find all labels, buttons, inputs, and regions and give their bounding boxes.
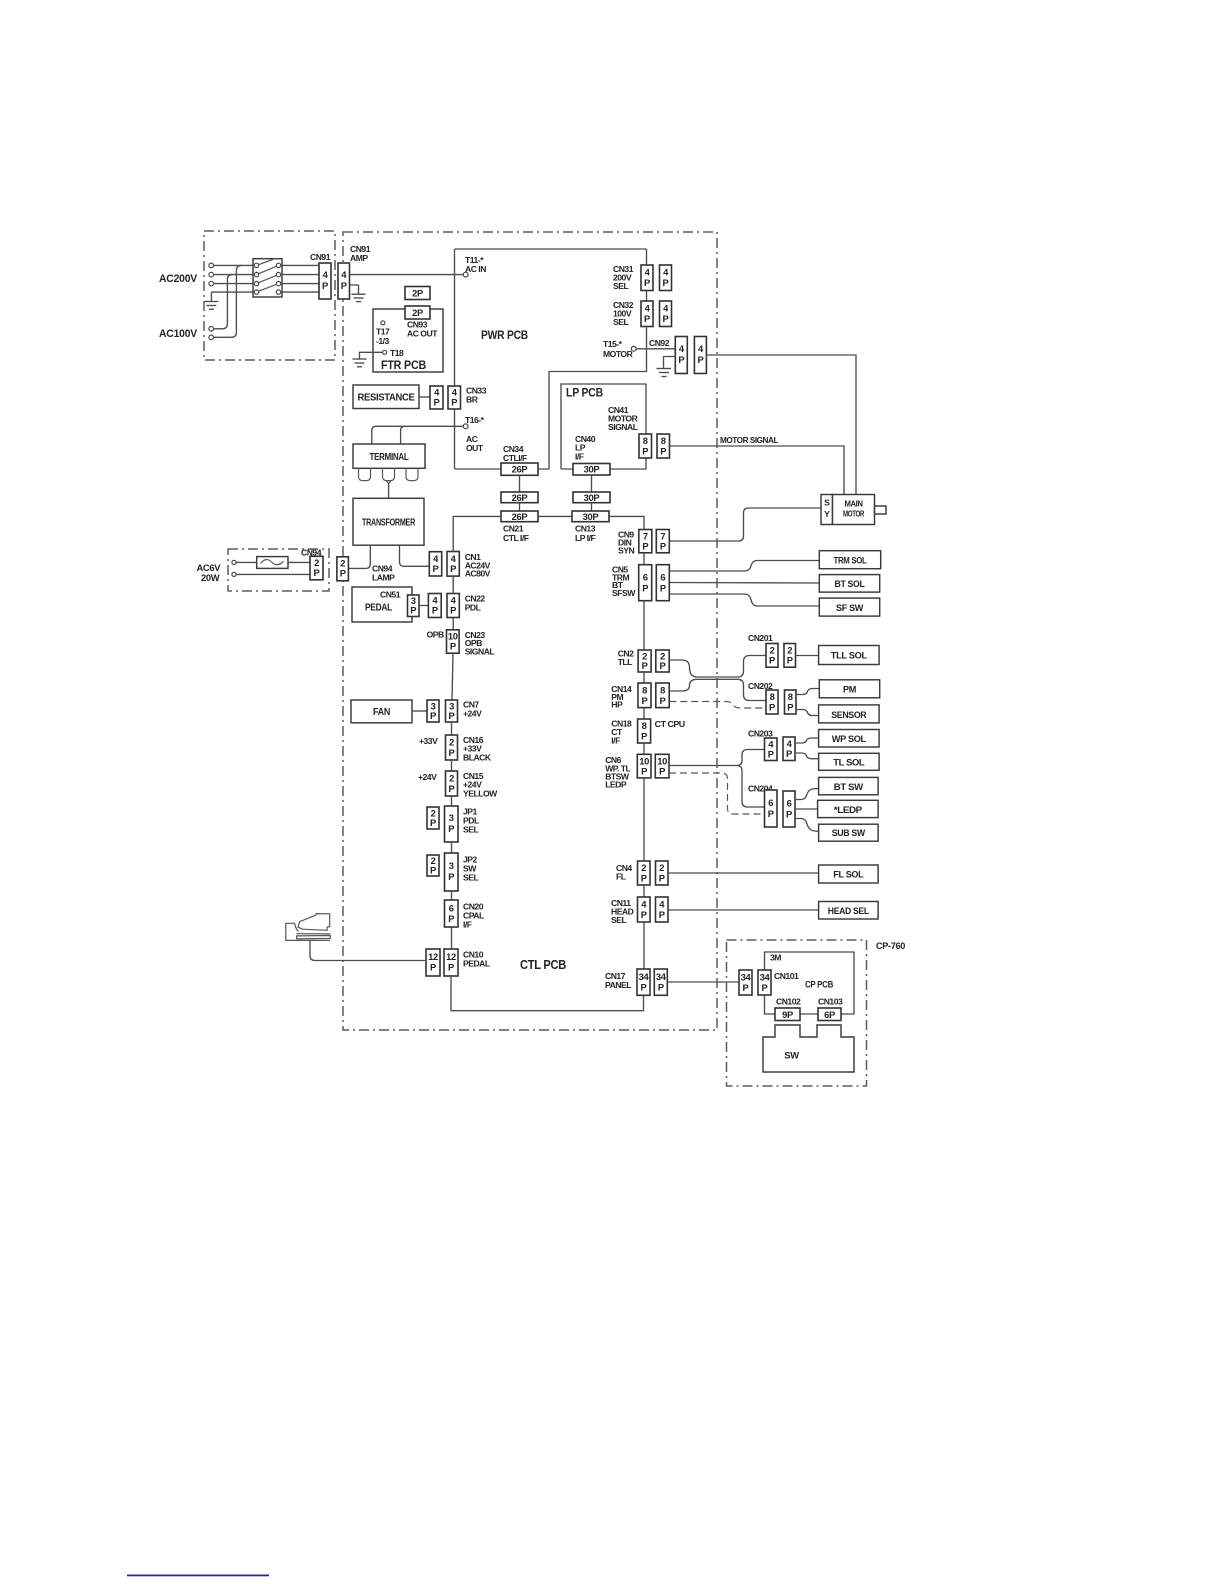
- svg-text:CN21: CN21: [503, 524, 524, 534]
- svg-text:P: P: [762, 982, 768, 993]
- svg-text:FL SOL: FL SOL: [833, 869, 864, 880]
- wire CN204 to BT SW: [795, 789, 819, 800]
- svg-text:HP: HP: [611, 700, 623, 710]
- svg-text:P: P: [697, 354, 703, 365]
- svg-text:RESISTANCE: RESISTANCE: [358, 393, 415, 404]
- connector CN31 4P mate: [660, 265, 672, 291]
- device TRANSFORMER: [353, 498, 424, 545]
- svg-text:+24V: +24V: [463, 709, 482, 719]
- connector CN101 34P: [739, 970, 752, 995]
- connector CN32 4P: [641, 301, 653, 327]
- svg-text:FL: FL: [616, 872, 626, 882]
- wire line3: [214, 283, 255, 285]
- device TL SOL: [819, 753, 880, 770]
- wire lamp terminal 1: [236, 561, 257, 563]
- wire chain CN23 to CN7: [452, 653, 453, 700]
- wire chain CN6 to CN4: [643, 778, 645, 861]
- foot pedal icon: [286, 914, 331, 941]
- wire fan to 3P: [412, 710, 427, 712]
- wire CN201 to TLL SOL: [796, 655, 819, 657]
- svg-text:P: P: [642, 695, 648, 706]
- connector CN204 6P mate: [783, 791, 795, 827]
- wire transformer to CN94: [349, 545, 371, 568]
- svg-text:8: 8: [642, 685, 647, 696]
- svg-text:P: P: [659, 766, 665, 777]
- connector CN11 4P mate: [656, 897, 669, 922]
- svg-text:AMP: AMP: [350, 253, 368, 263]
- connector CN6 10P: [637, 754, 651, 778]
- svg-text:Y: Y: [824, 509, 830, 519]
- svg-text:P: P: [642, 446, 648, 457]
- device HEAD SEL: [819, 902, 879, 920]
- svg-text:P: P: [786, 809, 792, 820]
- svg-text:P: P: [660, 695, 666, 706]
- svg-text:SIGNAL: SIGNAL: [608, 422, 638, 432]
- svg-text:P: P: [658, 982, 664, 993]
- svg-text:P: P: [448, 913, 454, 924]
- ground at CN92: [657, 357, 676, 377]
- main motor SY box: [821, 495, 833, 525]
- switch blade 1: [257, 259, 276, 266]
- connector CN9 7P: [639, 530, 652, 553]
- svg-text:P: P: [434, 397, 440, 408]
- wire CN21 to left chain: [453, 516, 501, 551]
- wire chain CN10 to CN17 panel: [451, 976, 644, 1011]
- svg-text:P: P: [660, 660, 666, 671]
- node T15: [631, 346, 636, 351]
- switch blade 3: [257, 275, 279, 284]
- svg-text:AC OUT: AC OUT: [407, 329, 438, 339]
- connector CN21 26P: [501, 511, 538, 522]
- wire T15 to CN92: [636, 348, 675, 350]
- wire chain JP2 to CN20: [451, 891, 453, 900]
- lamp symbol: [257, 557, 288, 569]
- svg-text:3: 3: [449, 860, 454, 871]
- device SF SW: [819, 598, 879, 616]
- svg-text:T17: T17: [376, 327, 390, 337]
- svg-text:T16-*: T16-*: [465, 415, 485, 425]
- wire line1 AC200V: [214, 264, 255, 266]
- svg-text:FAN: FAN: [373, 707, 390, 718]
- connector CN41 8P: [639, 434, 652, 458]
- svg-text:CTL I/F: CTL I/F: [503, 533, 529, 543]
- connector CN10 12P mate: [444, 949, 458, 976]
- svg-text:8: 8: [642, 720, 647, 731]
- svg-text:TLL: TLL: [618, 657, 632, 667]
- svg-text:AC100V: AC100V: [159, 328, 198, 340]
- connector CN31 4P: [641, 265, 653, 291]
- connector CN203 4P: [765, 738, 778, 761]
- connector CN51 3P: [408, 595, 420, 617]
- svg-text:P: P: [430, 817, 436, 828]
- svg-text:8: 8: [788, 691, 793, 702]
- svg-text:SEL: SEL: [613, 317, 628, 327]
- connector CN7 3P mate: [446, 700, 458, 722]
- wire CN6 shield dashed to CN204: [669, 773, 765, 814]
- connector CN13 30P: [572, 511, 609, 522]
- connector CN14 8P: [638, 683, 651, 708]
- svg-text:AC IN: AC IN: [465, 264, 486, 274]
- svg-text:P: P: [341, 280, 347, 291]
- svg-text:P: P: [644, 313, 650, 324]
- svg-text:2: 2: [659, 862, 664, 873]
- device TRM SOL: [819, 551, 880, 569]
- device FAN: [351, 700, 412, 723]
- wire line2: [214, 274, 255, 276]
- svg-text:3: 3: [449, 812, 454, 823]
- node lamp terminals: [232, 560, 236, 576]
- svg-text:20W: 20W: [201, 572, 220, 583]
- svg-text:12: 12: [446, 951, 456, 962]
- wire chain CN15 to JP1: [451, 796, 453, 806]
- svg-text:2: 2: [641, 862, 646, 873]
- connector CN103 6P: [818, 1008, 841, 1021]
- wire chain CN18 to CN6: [643, 743, 645, 754]
- svg-text:P: P: [314, 567, 320, 578]
- CP PCB board outline: [765, 952, 855, 1014]
- footer underline: [127, 1575, 269, 1577]
- svg-text:WP SOL: WP SOL: [832, 733, 867, 744]
- connector CN101 34P mate: [758, 970, 771, 995]
- wire AC100V lower to line1: [214, 265, 242, 337]
- svg-text:6: 6: [768, 797, 773, 808]
- connector CN1 4P: [429, 552, 441, 576]
- svg-text:P: P: [641, 982, 647, 993]
- connector CN7 3P: [427, 700, 439, 722]
- wire terminal to T16: [372, 426, 463, 444]
- connector CN4 2P: [638, 861, 651, 885]
- svg-text:TRANSFORMER: TRANSFORMER: [362, 518, 416, 529]
- wire CN5 to TRM SOL: [669, 561, 819, 572]
- node terminals AC200V: [209, 263, 214, 286]
- svg-text:SFSW: SFSW: [612, 588, 636, 598]
- svg-text:MAIN: MAIN: [845, 499, 863, 509]
- svg-text:I/F: I/F: [575, 452, 584, 462]
- svg-text:BT SW: BT SW: [834, 781, 863, 792]
- device SW panel: [763, 1025, 854, 1072]
- wire 26P stack b: [519, 503, 521, 511]
- device SUB SW: [819, 824, 879, 841]
- wire loop to CN34 26P: [455, 468, 502, 470]
- connector CN10 12P: [426, 949, 440, 976]
- svg-text:MOTOR: MOTOR: [603, 349, 634, 359]
- CP-760 dashed enclosure: [727, 940, 867, 1086]
- connector CN91 4P plug: [319, 263, 331, 299]
- node T17: [381, 321, 385, 325]
- svg-text:S: S: [824, 498, 830, 508]
- connector CN202 8P mate: [785, 690, 797, 714]
- svg-text:PM: PM: [843, 684, 857, 695]
- svg-text:I/F: I/F: [463, 920, 472, 930]
- svg-text:8: 8: [660, 685, 665, 696]
- connector CN4 2P mate: [656, 861, 669, 885]
- device MAIN MOTOR: [833, 495, 875, 525]
- svg-text:P: P: [786, 748, 792, 759]
- connector CN92 4P: [675, 337, 687, 374]
- svg-text:P: P: [451, 397, 457, 408]
- svg-text:P: P: [450, 563, 456, 574]
- wire CN203 to WP SOL: [795, 738, 819, 743]
- connector CN17 34P: [637, 969, 650, 995]
- connector JP1 2P: [427, 807, 439, 829]
- svg-text:CP PCB: CP PCB: [805, 979, 833, 990]
- svg-text:P: P: [644, 277, 650, 288]
- wire lamp to CN94: [288, 561, 310, 563]
- svg-text:P: P: [660, 583, 666, 594]
- switch contact nodes: [254, 263, 280, 294]
- wire CN5 to BT SOL: [669, 582, 819, 585]
- svg-text:2P: 2P: [412, 288, 423, 299]
- device WP SOL: [819, 730, 880, 748]
- svg-text:8: 8: [643, 435, 648, 446]
- wire CN6 to CN203: [669, 750, 765, 766]
- svg-text:MOTOR: MOTOR: [843, 509, 865, 519]
- svg-text:6P: 6P: [824, 1009, 835, 1020]
- svg-text:34: 34: [656, 971, 667, 982]
- connector CN5 6P mate: [656, 565, 669, 601]
- AC6V lamp dashed enclosure: [228, 549, 329, 591]
- svg-text:26P: 26P: [512, 492, 528, 503]
- wire CN14 to bundle: [669, 679, 737, 691]
- svg-text:P: P: [448, 823, 454, 834]
- svg-text:SEL: SEL: [463, 825, 478, 835]
- svg-text:CTL PCB: CTL PCB: [520, 957, 566, 972]
- svg-text:6: 6: [787, 798, 792, 809]
- connector CN23 10P: [447, 630, 460, 653]
- svg-text:SEL: SEL: [463, 873, 478, 883]
- svg-text:6: 6: [643, 572, 648, 583]
- terminal comb: [359, 468, 419, 483]
- wire 26P stack a: [519, 475, 521, 492]
- svg-text:SENSOR: SENSOR: [831, 709, 867, 720]
- svg-text:P: P: [641, 909, 647, 920]
- connector CN17 34P mate: [654, 969, 667, 995]
- wire chain CN22 to CN23: [452, 618, 454, 630]
- svg-text:P: P: [768, 808, 774, 819]
- connector CN201 2P mate: [784, 644, 796, 668]
- wire 30P stack a: [591, 475, 593, 492]
- svg-text:OUT: OUT: [466, 443, 484, 453]
- wire CN6 branch to CN204: [737, 766, 765, 808]
- connector CN2 2P mate: [656, 650, 669, 672]
- svg-text:YELLOW: YELLOW: [463, 789, 498, 799]
- svg-text:BLACK: BLACK: [463, 753, 492, 763]
- ground at CN91 AMP: [350, 285, 366, 302]
- svg-text:TL SOL: TL SOL: [833, 756, 865, 767]
- svg-text:SUB SW: SUB SW: [832, 827, 865, 838]
- connector JP2 3P: [445, 853, 459, 891]
- connector CN34 26P: [501, 463, 538, 475]
- device TLL SOL: [819, 646, 880, 665]
- svg-text:P: P: [641, 731, 647, 742]
- connector JP1 3P: [445, 806, 459, 842]
- wire CN32 down and loop to 26P: [538, 327, 647, 470]
- svg-text:26P: 26P: [512, 511, 528, 522]
- svg-text:AC80V: AC80V: [465, 569, 491, 579]
- device SENSOR: [819, 705, 880, 723]
- wire PWR loop top: [455, 248, 647, 250]
- svg-text:BT SOL: BT SOL: [835, 578, 866, 589]
- svg-text:P: P: [449, 783, 455, 794]
- main PCB dashed enclosure: [343, 232, 717, 1030]
- svg-text:34: 34: [741, 972, 752, 983]
- wire 30P stack b: [591, 503, 593, 511]
- connector CN2 2P: [638, 650, 651, 672]
- svg-text:PANEL: PANEL: [605, 980, 631, 990]
- svg-text:LP I/F: LP I/F: [575, 533, 595, 543]
- svg-text:6: 6: [660, 572, 665, 583]
- svg-text:P: P: [641, 873, 647, 884]
- svg-text:P: P: [769, 702, 775, 713]
- svg-text:P: P: [642, 541, 648, 552]
- svg-text:P: P: [448, 871, 454, 882]
- svg-text:26P: 26P: [512, 464, 528, 475]
- svg-text:P: P: [659, 909, 665, 920]
- ground in AC box: [204, 292, 218, 309]
- svg-text:P: P: [410, 605, 416, 616]
- LP PCB board outline: [561, 384, 646, 469]
- wire CN13 to right chain: [609, 516, 644, 529]
- wire CN14 shield dashed: [669, 702, 766, 709]
- svg-text:LEDP: LEDP: [605, 780, 627, 790]
- wire CN11 to HEAD SEL: [668, 909, 819, 911]
- wire top to CN31: [646, 249, 648, 265]
- svg-text:P: P: [678, 354, 684, 365]
- device RESISTANCE: [353, 385, 419, 409]
- svg-text:T15-*: T15-*: [603, 339, 623, 349]
- svg-text:P: P: [642, 583, 648, 594]
- svg-text:HEAD SEL: HEAD SEL: [828, 905, 870, 916]
- svg-text:PDL: PDL: [465, 603, 481, 613]
- svg-text:CN103: CN103: [818, 997, 843, 1007]
- svg-text:8: 8: [661, 435, 666, 446]
- connector CN33 4P mate: [448, 386, 461, 409]
- svg-text:P: P: [448, 962, 454, 973]
- connector CN202 8P: [766, 690, 778, 714]
- device PM: [819, 680, 879, 698]
- connector CN32 4P mate: [660, 301, 672, 327]
- svg-text:2P: 2P: [412, 307, 423, 318]
- device TERMINAL: [353, 444, 425, 468]
- wire CN5 to SF SW: [669, 594, 819, 606]
- connector CN203 4P mate: [783, 737, 795, 761]
- svg-text:P: P: [641, 766, 647, 777]
- wire pedal to CN10: [310, 940, 426, 960]
- connector CN102 9P: [775, 1008, 800, 1021]
- svg-text:P: P: [430, 865, 436, 876]
- voltage selector switch block: [253, 259, 282, 297]
- svg-text:P: P: [787, 702, 793, 713]
- wire chain CN11 to CN17: [643, 922, 645, 969]
- wire resistance to 4P: [419, 396, 430, 398]
- wire CN202 to SENSOR: [796, 710, 819, 716]
- FTR PCB board outline: [373, 309, 443, 372]
- connector CN204 6P: [765, 790, 778, 827]
- device FL SOL: [819, 865, 879, 883]
- device LEDP: [818, 800, 879, 817]
- connector CN5 6P: [639, 565, 652, 601]
- wire chain CN2 to CN14: [643, 672, 645, 683]
- ground at FTR PCB: [353, 352, 383, 367]
- svg-text:30P: 30P: [583, 511, 599, 522]
- svg-text:SEL: SEL: [613, 281, 628, 291]
- device BT SW: [819, 777, 879, 794]
- svg-text:CN201: CN201: [748, 633, 773, 643]
- wire 3P to 4P: [419, 605, 428, 607]
- wire chain CN7 to CN16: [451, 722, 453, 735]
- wire transformer to CN1: [400, 545, 430, 566]
- svg-text:CN203: CN203: [748, 729, 773, 739]
- svg-text:LAMP: LAMP: [372, 573, 395, 583]
- wire bundle split to CN201: [738, 656, 767, 678]
- wire chain CN20 to CN10: [451, 927, 453, 949]
- svg-text:2: 2: [449, 737, 454, 748]
- svg-text:FTR PCB: FTR PCB: [381, 358, 426, 372]
- connector 26P cable: [501, 492, 538, 503]
- svg-text:*LEDP: *LEDP: [834, 804, 862, 815]
- svg-text:SYN: SYN: [618, 546, 634, 556]
- connector CN40 30P: [573, 464, 610, 476]
- connector CN94 2P: [310, 556, 323, 580]
- svg-text:34: 34: [639, 971, 650, 982]
- wires switch to CN91: [281, 265, 319, 292]
- svg-text:CN101: CN101: [774, 971, 799, 981]
- wire CN204 to LEDP: [795, 808, 818, 810]
- connector CN15 2P: [446, 771, 458, 796]
- svg-text:-1/3: -1/3: [376, 336, 390, 346]
- svg-text:P: P: [659, 873, 665, 884]
- svg-text:PEDAL: PEDAL: [365, 603, 393, 614]
- connector CN6 10P mate: [655, 754, 669, 778]
- wire chain CN9 to CN5: [643, 553, 645, 565]
- wire CN4 to FL SOL: [668, 872, 819, 874]
- AC input selector dashed enclosure: [204, 231, 335, 360]
- svg-text:AC200V: AC200V: [159, 273, 198, 285]
- node terminals AC100V: [209, 327, 214, 340]
- svg-text:PWR PCB: PWR PCB: [481, 328, 528, 342]
- connector CN93 2P: [405, 306, 430, 319]
- connector CN94 2P mate: [337, 557, 349, 581]
- wire CN203 to TL SOL: [795, 753, 819, 759]
- svg-text:CTLI/F: CTLI/F: [503, 453, 527, 463]
- wire CN2 to bundle: [669, 660, 737, 677]
- svg-text:CT CPU: CT CPU: [655, 719, 685, 729]
- svg-text:P: P: [769, 655, 775, 666]
- wire comb to transformer: [388, 483, 390, 498]
- svg-text:SEL: SEL: [611, 915, 626, 925]
- svg-text:BR: BR: [466, 395, 479, 405]
- svg-text:P: P: [450, 641, 456, 652]
- svg-text:8: 8: [770, 691, 775, 702]
- svg-text:P: P: [449, 710, 455, 721]
- node T16: [463, 424, 468, 429]
- svg-text:P: P: [660, 541, 666, 552]
- svg-text:MOTOR SIGNAL: MOTOR SIGNAL: [720, 435, 778, 445]
- svg-text:P: P: [660, 446, 666, 457]
- connector JP2 2P: [427, 855, 439, 876]
- wire chain CN4 to CN11: [643, 885, 645, 897]
- connector 30P cable: [573, 492, 610, 503]
- connector CN14 8P mate: [656, 683, 669, 708]
- node T18: [383, 350, 387, 354]
- svg-text:3M: 3M: [770, 953, 781, 963]
- svg-text:SF SW: SF SW: [836, 602, 863, 613]
- switch blade 4: [257, 284, 279, 293]
- svg-text:6: 6: [449, 903, 454, 914]
- svg-text:CN91: CN91: [310, 252, 331, 262]
- svg-text:CN92: CN92: [649, 338, 670, 348]
- svg-text:P: P: [432, 605, 438, 616]
